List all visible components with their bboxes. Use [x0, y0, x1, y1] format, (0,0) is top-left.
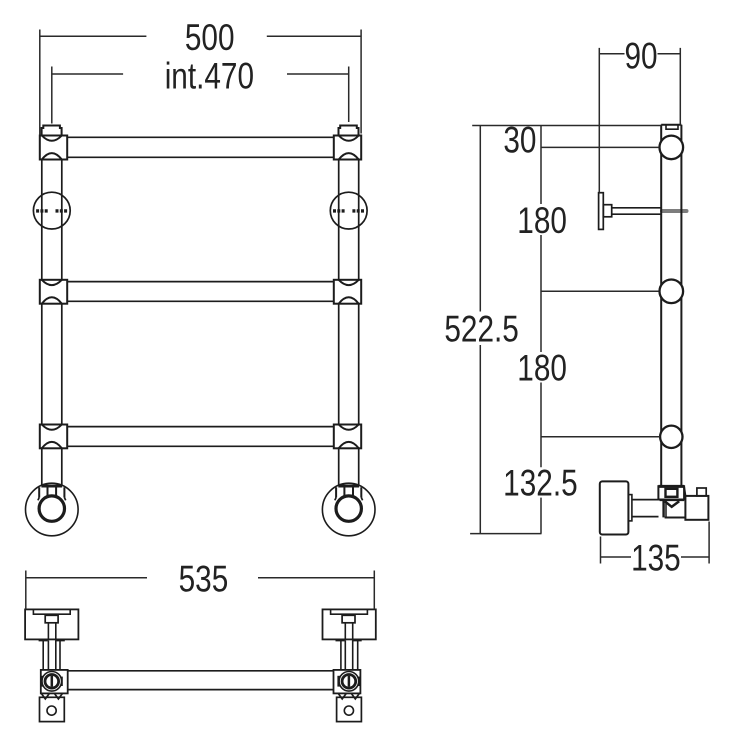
svg-text:522.5: 522.5 — [444, 310, 518, 351]
svg-text:180: 180 — [517, 201, 567, 242]
svg-text:int.470: int.470 — [165, 56, 254, 97]
svg-text:135: 135 — [631, 539, 681, 580]
svg-text:180: 180 — [517, 349, 567, 390]
svg-text:90: 90 — [624, 36, 657, 77]
svg-text:132.5: 132.5 — [503, 464, 577, 505]
svg-text:535: 535 — [179, 560, 229, 601]
svg-text:500: 500 — [185, 18, 235, 59]
svg-text:30: 30 — [503, 121, 536, 162]
